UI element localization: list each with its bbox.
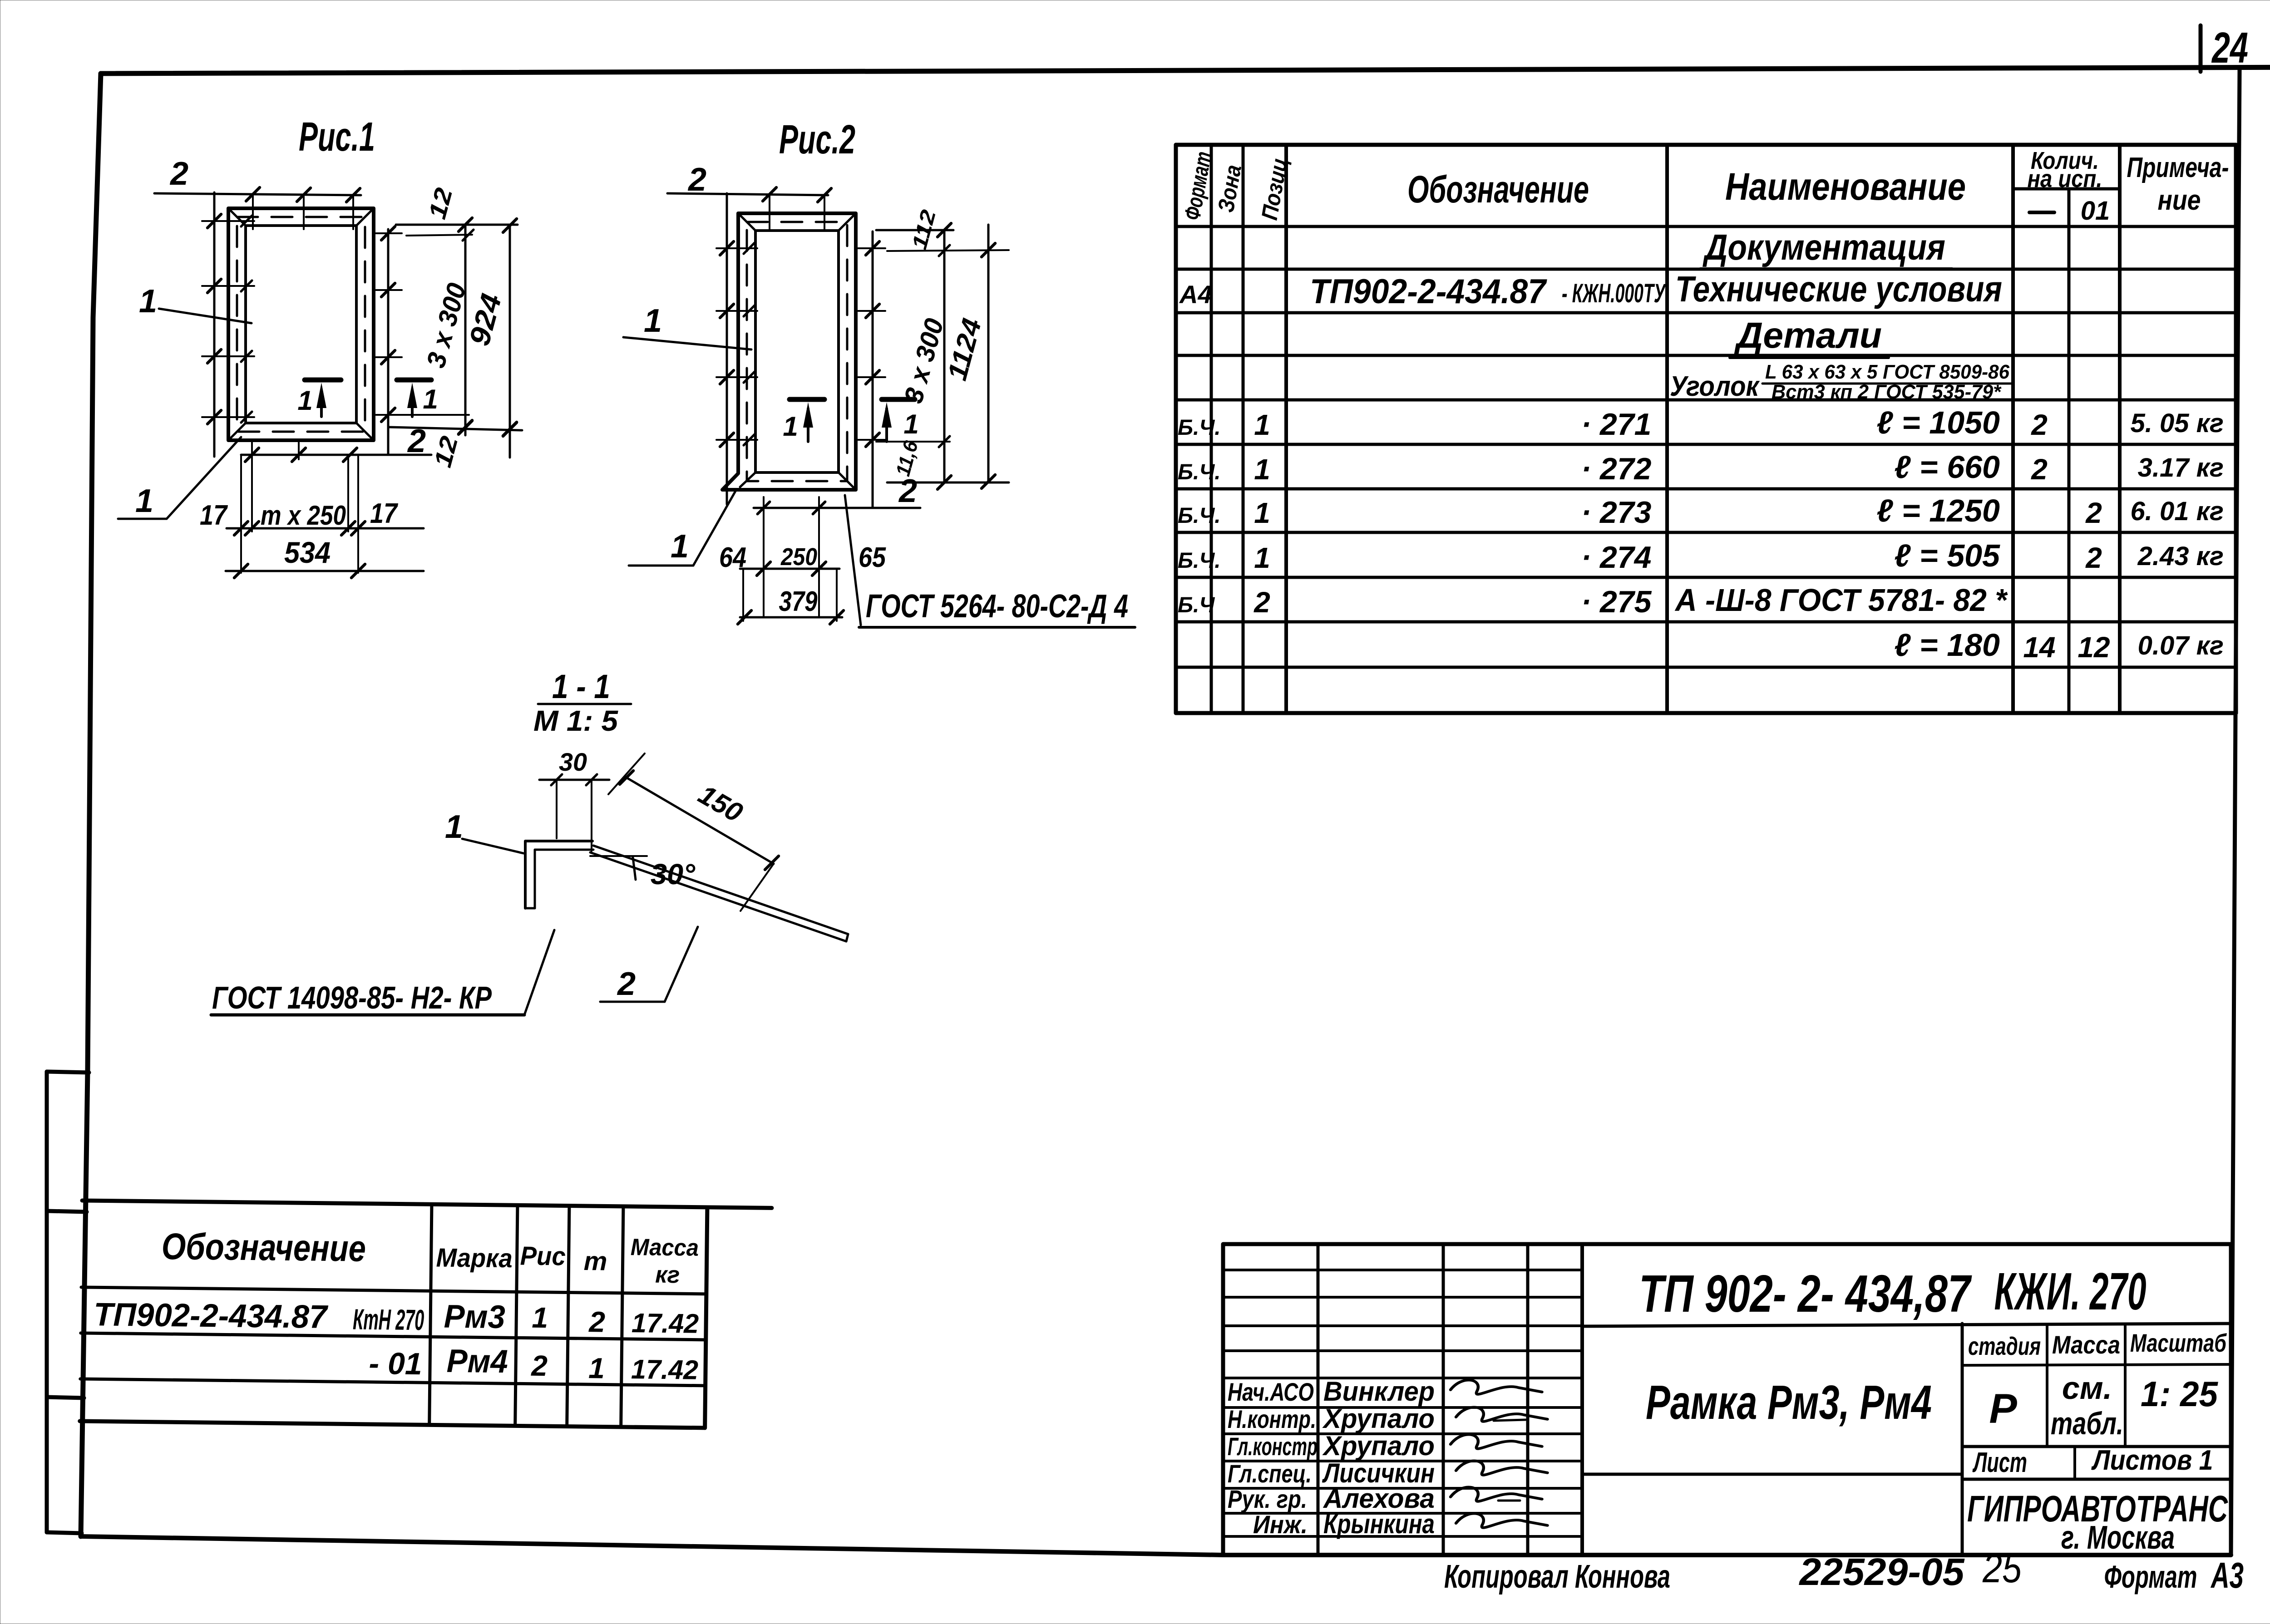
svg-text:Документация: Документация bbox=[1702, 227, 1945, 267]
fig2 left extension line bbox=[716, 193, 757, 504]
svg-text:01: 01 bbox=[2081, 196, 2110, 226]
spec row Документация bbox=[1700, 227, 1952, 269]
fig2 dim 250 bbox=[780, 543, 817, 571]
svg-text:Н.контр.: Н.контр. bbox=[1228, 1405, 1316, 1433]
svg-text:кг: кг bbox=[655, 1262, 680, 1289]
svg-text:Копировал Коннова: Копировал Коннова bbox=[1444, 1559, 1670, 1595]
fig2 item label 1 (corner, lower-left) bbox=[629, 491, 735, 566]
spec row detail 275 bbox=[1178, 582, 2008, 619]
svg-text:22529-05: 22529-05 bbox=[1798, 1550, 1964, 1593]
fig1 dim 12 (top-right) bbox=[396, 185, 518, 241]
svg-text:11,6: 11,6 bbox=[892, 438, 923, 479]
svg-text:Рис.1: Рис.1 bbox=[299, 114, 375, 160]
fig2 dim 64 bbox=[719, 542, 746, 573]
svg-text:1: 1 bbox=[1254, 408, 1270, 441]
spec header dash bbox=[2029, 211, 2054, 214]
svg-text:Наименование: Наименование bbox=[1725, 165, 1966, 208]
section item label 1 bbox=[445, 809, 523, 853]
fig2 title Рис.2 bbox=[779, 117, 855, 162]
fig1 frame corner miters bbox=[228, 208, 374, 440]
fig2 frame dashed centerline bbox=[747, 222, 847, 481]
svg-text:Рис.2: Рис.2 bbox=[779, 117, 855, 162]
svg-text:- КЖН.000ТУ: - КЖН.000ТУ bbox=[1562, 279, 1666, 308]
svg-text:Листов 1: Листов 1 bbox=[2091, 1445, 2213, 1476]
svg-text:1: 1 bbox=[1254, 497, 1270, 529]
spec row Детали bbox=[1730, 315, 1889, 358]
svg-text:30°: 30° bbox=[651, 858, 695, 891]
fig2 right rebar extension line bbox=[858, 231, 885, 508]
spec row Технические условия bbox=[1179, 269, 2002, 311]
title block Лист bbox=[1972, 1447, 2027, 1478]
spec header Формат (rotated) bbox=[1179, 149, 1217, 221]
fig1 dim line m x 250 bbox=[227, 522, 424, 535]
svg-text:ГОСТ 14098-85- Н2- КР: ГОСТ 14098-85- Н2- КР bbox=[212, 980, 492, 1015]
svg-text:Рм4: Рм4 bbox=[446, 1343, 508, 1380]
svg-text:2: 2 bbox=[2031, 408, 2048, 441]
title block value 1:25 bbox=[2141, 1374, 2219, 1414]
svg-text:1: 1 bbox=[1254, 541, 1270, 574]
bottom table row Рм3 bbox=[94, 1294, 699, 1339]
svg-text:25: 25 bbox=[1982, 1546, 2022, 1591]
svg-text:Рм3: Рм3 bbox=[444, 1299, 505, 1335]
svg-text:1: 1 bbox=[1254, 453, 1270, 486]
svg-text:2: 2 bbox=[531, 1349, 548, 1382]
svg-text:Зона: Зона bbox=[1213, 163, 1246, 214]
spec header Примечание bbox=[2127, 152, 2229, 216]
fig1 dim 534 bbox=[226, 536, 424, 578]
fig1 top dimension line bbox=[154, 187, 361, 229]
svg-text:m: m bbox=[583, 1246, 607, 1276]
fig2 section mark 1-1 (right) bbox=[882, 399, 919, 442]
spec header Обозначение bbox=[1407, 168, 1589, 211]
svg-text:30: 30 bbox=[559, 748, 587, 776]
svg-text:2: 2 bbox=[2085, 497, 2102, 529]
svg-text:1: 1 bbox=[644, 303, 662, 339]
svg-text:Рис: Рис bbox=[520, 1241, 566, 1271]
svg-text:г. Москва: г. Москва bbox=[2061, 1520, 2175, 1556]
svg-text:стадия: стадия bbox=[1968, 1332, 2041, 1360]
section detail scale М1:5 bbox=[533, 704, 618, 737]
title block stage grid bbox=[1582, 1324, 2231, 1555]
svg-text:3 x 300: 3 x 300 bbox=[421, 280, 472, 371]
svg-text:Примеча-: Примеча- bbox=[2127, 152, 2229, 183]
svg-text:1: 1 bbox=[139, 283, 157, 320]
fig1 bottom extension lines bbox=[241, 443, 358, 573]
fig2 top dimension line bbox=[667, 187, 831, 229]
svg-text:Вст3 кп 2 ГОСТ 535-79*: Вст3 кп 2 ГОСТ 535-79* bbox=[1772, 381, 2002, 403]
svg-text:14: 14 bbox=[2023, 631, 2055, 664]
svg-text:Детали: Детали bbox=[1734, 315, 1882, 355]
svg-text:Хрупало: Хрупало bbox=[1322, 1431, 1435, 1461]
spec row l=180 bbox=[1894, 627, 2224, 664]
svg-text:Нач.АСО: Нач.АСО bbox=[1228, 1378, 1314, 1406]
title block name Рамка Рм3,Рм4 bbox=[1646, 1376, 1932, 1429]
title block signatures (squiggles) bbox=[1451, 1380, 1548, 1527]
fig1 dim 924 line bbox=[463, 219, 517, 458]
svg-text:Лист: Лист bbox=[1972, 1447, 2027, 1478]
svg-text:М 1: 5: М 1: 5 bbox=[533, 704, 618, 737]
title block outer frame bbox=[1223, 1244, 2231, 1555]
title block header Масса bbox=[2052, 1330, 2120, 1359]
svg-text:Б.Ч.: Б.Ч. bbox=[1178, 416, 1221, 440]
svg-text:Рамка Рм3, Рм4: Рамка Рм3, Рм4 bbox=[1646, 1376, 1932, 1429]
fig2 weld label 2 (top) bbox=[687, 162, 706, 198]
svg-text:1: 1 bbox=[783, 411, 798, 442]
svg-text:17: 17 bbox=[200, 500, 228, 531]
svg-text:Винклер: Винклер bbox=[1323, 1376, 1435, 1407]
svg-text:· 273: · 273 bbox=[1581, 495, 1652, 530]
fig1 section mark 1-1 (left) bbox=[297, 380, 341, 417]
spec header Наименование bbox=[1725, 165, 1966, 208]
spec header Колич. на исп. bbox=[2028, 147, 2102, 192]
page number 24 bbox=[2211, 24, 2248, 72]
svg-text:2: 2 bbox=[588, 1305, 605, 1338]
svg-text:Гл.констр: Гл.констр bbox=[1228, 1432, 1318, 1461]
svg-text:· 275: · 275 bbox=[1581, 585, 1652, 619]
svg-text:2: 2 bbox=[898, 473, 917, 509]
svg-text:Б.Ч.: Б.Ч. bbox=[1178, 504, 1221, 528]
fig2 weld label 2 (bottom) bbox=[754, 473, 920, 514]
svg-text:на исп.: на исп. bbox=[2028, 165, 2102, 192]
svg-text:250: 250 bbox=[780, 543, 817, 571]
svg-text:924: 924 bbox=[463, 290, 508, 349]
fig2 dim 112 (top-right) bbox=[876, 207, 1009, 256]
section item label 2 bbox=[600, 927, 698, 1002]
bottom table header Масса кг bbox=[630, 1234, 699, 1289]
fig1 item label 1 (corner, lower-left) bbox=[118, 437, 241, 519]
svg-text:1: 1 bbox=[588, 1352, 605, 1384]
section dim 30 bbox=[539, 748, 609, 851]
svg-text:Масса: Масса bbox=[631, 1234, 699, 1261]
svg-text:65: 65 bbox=[859, 542, 886, 573]
spec row detail 271 bbox=[1178, 405, 2224, 442]
svg-text:ℓ = 505: ℓ = 505 bbox=[1894, 538, 2000, 573]
footer Формат А3 bbox=[2104, 1555, 2244, 1595]
title block signature grid bbox=[1223, 1244, 1582, 1555]
svg-text:1: 1 bbox=[297, 385, 312, 416]
svg-text:3 x 300: 3 x 300 bbox=[898, 315, 949, 406]
svg-text:· 271: · 271 bbox=[1581, 407, 1652, 442]
bottom table row Рм4 bbox=[369, 1342, 699, 1386]
fig1 dim m x 250 bbox=[261, 500, 346, 531]
fig2 weld callout ГОСТ 5264-80-С2-Д4 bbox=[845, 495, 1135, 627]
fig1 frame outer contour bbox=[228, 208, 374, 440]
fig1 weld label 2 (bottom) bbox=[241, 423, 431, 462]
svg-text:379: 379 bbox=[779, 586, 818, 617]
spec header Позиц. (rotated) bbox=[1257, 150, 1293, 221]
spec header Зона (rotated) bbox=[1213, 163, 1246, 214]
fig1 left extension line bbox=[202, 192, 254, 457]
bottom table header Марка bbox=[436, 1243, 513, 1273]
svg-text:m x 250: m x 250 bbox=[261, 500, 346, 531]
svg-text:А3: А3 bbox=[2211, 1555, 2244, 1595]
svg-text:1: 25: 1: 25 bbox=[2141, 1374, 2219, 1414]
svg-text:Рук. гр.: Рук. гр. bbox=[1228, 1485, 1307, 1513]
svg-text:2: 2 bbox=[2031, 453, 2048, 486]
fig1 weld label 2 (top) bbox=[169, 156, 188, 192]
svg-text:Б.Ч.: Б.Ч. bbox=[1178, 549, 1221, 573]
title block roles and names bbox=[1228, 1376, 1435, 1539]
svg-text:ℓ = 1050: ℓ = 1050 bbox=[1876, 405, 2000, 440]
svg-text:КЖИ. 270: КЖИ. 270 bbox=[1994, 1262, 2147, 1321]
svg-text:Б.Ч: Б.Ч bbox=[1178, 593, 1215, 617]
title block value Р bbox=[1989, 1386, 2017, 1432]
svg-text:L 63 x 63 x 5 ГОСТ 8509-86: L 63 x 63 x 5 ГОСТ 8509-86 bbox=[1765, 361, 2009, 383]
fig2 frame corner miters bbox=[738, 213, 856, 490]
fig2 frame outer contour bbox=[722, 213, 856, 490]
svg-text:12: 12 bbox=[429, 433, 464, 470]
svg-text:Уголок: Уголок bbox=[1670, 371, 1760, 402]
bottom table header m bbox=[583, 1246, 607, 1276]
fig1 frame inner contour bbox=[246, 226, 356, 423]
svg-text:Технические условия: Технические условия bbox=[1675, 269, 2002, 309]
svg-text:· 274: · 274 bbox=[1581, 540, 1652, 575]
svg-text:534: 534 bbox=[284, 536, 331, 569]
fig2 frame inner contour bbox=[755, 231, 839, 472]
svg-text:А4: А4 bbox=[1179, 280, 1212, 309]
fig2 bottom extension lines bbox=[743, 497, 837, 621]
footer 25 bbox=[1982, 1546, 2022, 1591]
fig1 item label 1 (angle, mid-left) bbox=[139, 283, 252, 323]
svg-text:2.43 кг: 2.43 кг bbox=[2137, 541, 2224, 571]
fig2 section mark 1-1 (left) bbox=[783, 399, 824, 442]
footer 22529-05 bbox=[1798, 1550, 1964, 1593]
svg-text:ℓ = 180: ℓ = 180 bbox=[1894, 627, 2000, 663]
fig2 dim 379 bbox=[738, 586, 844, 624]
svg-text:2: 2 bbox=[617, 966, 636, 1002]
svg-text:1: 1 bbox=[532, 1301, 548, 1334]
svg-text:1: 1 bbox=[903, 409, 918, 439]
title block header Масштаб bbox=[2130, 1329, 2227, 1357]
fig1 dim 17 (right) bbox=[370, 498, 398, 529]
svg-text:2: 2 bbox=[687, 162, 706, 198]
svg-text:Хрупало: Хрупало bbox=[1322, 1403, 1435, 1434]
title block value см.табл. bbox=[2051, 1370, 2123, 1441]
spec row detail 273 bbox=[1178, 493, 2224, 530]
fig1 right rebar extension line bbox=[376, 226, 402, 454]
svg-text:6. 01 кг: 6. 01 кг bbox=[2131, 497, 2224, 526]
fig1 dim 3x300 line bbox=[421, 225, 472, 435]
svg-text:1: 1 bbox=[135, 483, 153, 519]
svg-text:3.17 кг: 3.17 кг bbox=[2138, 453, 2224, 482]
footer Копировал Коннова bbox=[1444, 1559, 1670, 1595]
svg-text:1: 1 bbox=[445, 809, 463, 845]
svg-text:2: 2 bbox=[169, 156, 188, 192]
svg-text:ТП 902- 2- 434,87: ТП 902- 2- 434,87 bbox=[1639, 1264, 1972, 1323]
spec row detail 272 bbox=[1178, 449, 2224, 486]
fig2 item label 1 (angle, mid-left) bbox=[623, 303, 751, 349]
section inclined bar (item 2) bbox=[590, 846, 848, 941]
svg-text:Гл.спец.: Гл.спец. bbox=[1228, 1459, 1312, 1488]
svg-text:12: 12 bbox=[424, 185, 458, 222]
svg-text:1 - 1: 1 - 1 bbox=[552, 668, 610, 705]
section dim 150 (slanted) bbox=[608, 753, 779, 911]
svg-text:Марка: Марка bbox=[436, 1243, 513, 1273]
svg-text:ℓ = 1250: ℓ = 1250 bbox=[1876, 493, 2000, 528]
svg-text:Р: Р bbox=[1989, 1386, 2017, 1432]
svg-text:ℓ = 660: ℓ = 660 bbox=[1894, 449, 2000, 485]
fig2 dim line 250 bbox=[740, 562, 839, 576]
fig2 dim 1124 line bbox=[942, 225, 995, 488]
svg-text:17: 17 bbox=[370, 498, 398, 529]
svg-text:2: 2 bbox=[1253, 586, 1270, 619]
svg-text:ние: ние bbox=[2158, 185, 2201, 216]
svg-text:А -Ш-8 ГОСТ 5781- 82 *: А -Ш-8 ГОСТ 5781- 82 * bbox=[1674, 582, 2008, 618]
svg-text:Масштаб: Масштаб bbox=[2130, 1329, 2227, 1357]
section angle profile (item 1) bbox=[525, 841, 593, 908]
svg-text:1: 1 bbox=[423, 384, 438, 414]
left binding strip bbox=[47, 1072, 89, 1533]
fig1 section mark 1-1 (right) bbox=[397, 380, 438, 417]
svg-text:Крынкина: Крынкина bbox=[1323, 1509, 1435, 1539]
title block organization ГИПРОАВТОТРАНС г.Москва bbox=[1967, 1488, 2228, 1556]
bottom table header Обозначение bbox=[161, 1226, 366, 1270]
specification table grid bbox=[1176, 145, 2236, 713]
svg-text:1: 1 bbox=[671, 528, 689, 565]
spec row detail 274 bbox=[1178, 538, 2224, 575]
title block Листов 1 bbox=[2091, 1445, 2213, 1476]
title block doc number ТП 902-2-434,87 КЖИ.270 bbox=[1582, 1262, 2231, 1326]
svg-text:- 01: - 01 bbox=[369, 1346, 422, 1381]
svg-text:17.42: 17.42 bbox=[631, 1354, 699, 1385]
fig2 dim 65 bbox=[859, 542, 886, 573]
svg-text:Формат: Формат bbox=[2104, 1559, 2197, 1594]
svg-text:КтН 270: КтН 270 bbox=[353, 1303, 424, 1336]
svg-text:Обозначение: Обозначение bbox=[161, 1226, 366, 1270]
bottom table bbox=[80, 1201, 772, 1428]
fig1 dim 12 (bottom-right) bbox=[389, 415, 522, 470]
fig1 frame dashed centerline bbox=[237, 217, 365, 432]
section detail label 1-1 bbox=[538, 668, 631, 705]
svg-text:ТП902-2-434.87: ТП902-2-434.87 bbox=[94, 1296, 329, 1335]
bottom table grid bbox=[80, 1201, 772, 1428]
svg-text:табл.: табл. bbox=[2051, 1406, 2123, 1441]
svg-text:17.42: 17.42 bbox=[632, 1308, 699, 1339]
svg-text:2: 2 bbox=[2085, 541, 2102, 574]
svg-text:Обозначение: Обозначение bbox=[1407, 168, 1589, 211]
spec row Уголок fraction bbox=[1670, 361, 2011, 403]
svg-text:5. 05 кг: 5. 05 кг bbox=[2131, 408, 2224, 438]
fig1 title Рис.1 bbox=[299, 114, 375, 160]
svg-text:12: 12 bbox=[2078, 631, 2110, 664]
svg-text:· 272: · 272 bbox=[1581, 452, 1652, 486]
page number 24 tick bbox=[2199, 25, 2203, 72]
svg-text:24: 24 bbox=[2211, 24, 2248, 72]
fig2 dim 11,6 (bottom-right) bbox=[876, 436, 1009, 489]
svg-text:ТП902-2-434.87: ТП902-2-434.87 bbox=[1310, 272, 1548, 311]
bottom table header Рис bbox=[520, 1241, 566, 1271]
section angle 30 deg bbox=[590, 856, 695, 891]
svg-text:Б.Ч.: Б.Ч. bbox=[1178, 460, 1221, 484]
svg-text:Инж.: Инж. bbox=[1253, 1510, 1308, 1539]
spec header 01 bbox=[2081, 196, 2110, 226]
svg-text:см.: см. bbox=[2062, 1370, 2112, 1406]
fig1 dim 17 (left) bbox=[200, 500, 228, 531]
fig2 dim 3x300 line bbox=[898, 230, 949, 482]
svg-text:0.07 кг: 0.07 кг bbox=[2138, 631, 2224, 660]
section weld callout ГОСТ 14098-85-Н2-КР bbox=[211, 930, 554, 1015]
title block header стадия bbox=[1968, 1332, 2041, 1360]
svg-text:ГОСТ 5264- 80-С2-Д 4: ГОСТ 5264- 80-С2-Д 4 bbox=[866, 588, 1128, 625]
svg-text:Масса: Масса bbox=[2052, 1330, 2120, 1359]
